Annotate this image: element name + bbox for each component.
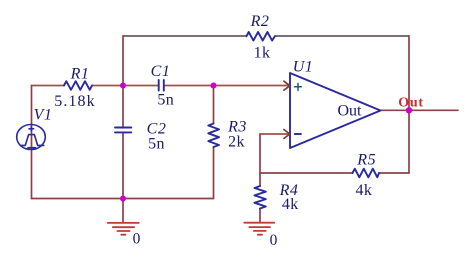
capacitor C1 [159,80,164,91]
svg-text:4k: 4k [355,182,372,199]
svg-text:4k: 4k [282,196,299,213]
svg-text:Out: Out [398,96,423,111]
svg-text:R5: R5 [356,152,376,169]
wire top feedback left segment [123,35,246,37]
svg-text:V1: V1 [34,107,53,124]
arrow into plus input [284,81,290,90]
wire output stub [381,109,459,111]
svg-text:1k: 1k [254,45,271,62]
node dot C1/R3 junction [211,83,217,89]
capacitor C2 [115,128,131,133]
wire R5 row [260,172,409,174]
resistor R5 [353,169,380,178]
node dot R1/C1/C2 junction [120,83,126,89]
ground right (0) [244,223,274,235]
node dot output junction [406,107,412,113]
wire bottom row [32,198,214,200]
svg-text:Out: Out [338,103,363,120]
wire V1 vertical [31,86,33,199]
svg-text:5n: 5n [148,136,165,153]
op-amp U1 [290,73,381,148]
wire right vertical from top to R5 row [408,36,410,173]
resistor R1 [64,81,92,90]
op-amp plus pin mark [295,83,302,90]
wire left vertical through C2 [122,36,124,199]
resistor R2 [246,32,274,41]
svg-text:C1: C1 [151,63,171,80]
wire top feedback right segment [275,35,409,37]
ground left (0) [108,223,139,235]
svg-text:R2: R2 [250,13,270,30]
wire inverting-to-R5 vertical [259,134,261,173]
wire R4 stems [259,173,261,223]
wire main input row [32,85,291,87]
svg-text:R1: R1 [70,66,90,83]
wire left ground stem [122,199,124,223]
svg-text:0: 0 [133,231,141,248]
svg-text:U1: U1 [293,59,314,76]
node dot bottom ground junction [120,196,126,202]
svg-text:5.18k: 5.18k [54,93,96,110]
svg-text:0: 0 [270,232,278,249]
arrow into minus input [284,130,290,139]
op-amp minus pin mark [295,133,301,135]
resistor R4 [255,186,266,209]
wire R3 branch [213,86,215,199]
source V1 [17,125,46,150]
svg-text:5n: 5n [157,91,174,108]
resistor R3 [208,124,219,148]
wire inverting input [260,133,290,135]
svg-text:2k: 2k [228,134,245,151]
